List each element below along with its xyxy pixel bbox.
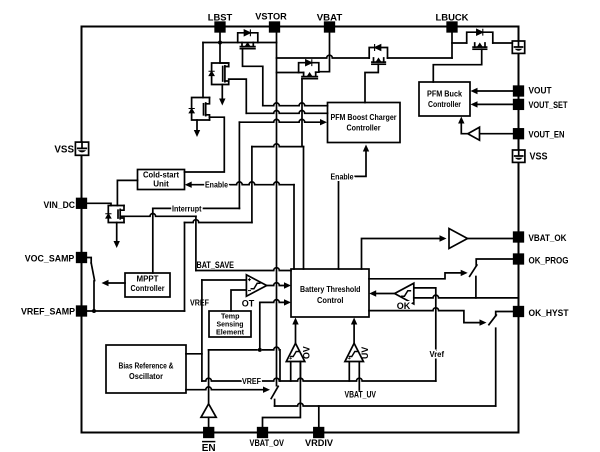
wire Q1 gate to boost controller bbox=[229, 79, 247, 113]
pin VIN_DC bbox=[77, 199, 87, 209]
transistor Q1 boost low-side FET bbox=[209, 43, 229, 85]
wire VRDIV divider line bbox=[274, 400, 276, 407]
pin VSTOR bbox=[270, 22, 280, 32]
svg-text:VRDIV: VRDIV bbox=[305, 438, 334, 449]
comparator U5 UV bbox=[345, 343, 364, 381]
wire VBAT pin drop to Q5 bbox=[319, 32, 330, 72]
pin LBUCK bbox=[447, 22, 457, 32]
node VREF_SAMP switch dot bbox=[92, 309, 96, 313]
wire VSTOR-LBUCK rail bbox=[277, 55, 453, 58]
wire boost controller input 2 bbox=[246, 111, 327, 114]
transistor Q7 input FET bbox=[106, 206, 124, 223]
transistor Q6 buck FET with body diode bbox=[467, 29, 493, 49]
svg-text:LBST: LBST bbox=[208, 13, 233, 24]
pin VSS top-right symbol bbox=[512, 41, 524, 53]
svg-text:VSS: VSS bbox=[530, 152, 548, 163]
pin EN (active low) bbox=[204, 428, 214, 438]
wire OK output arrow into battery threshold control bbox=[376, 293, 395, 295]
svg-text:OK_HYST: OK_HYST bbox=[529, 308, 569, 319]
svg-text:OK: OK bbox=[397, 301, 411, 311]
svg-text:Unit: Unit bbox=[153, 180, 169, 189]
wire OV output arrow into battery threshold control bbox=[295, 324, 297, 343]
svg-text:EN: EN bbox=[202, 443, 216, 452]
svg-text:Enable: Enable bbox=[205, 180, 228, 190]
wire VREF_SAMP line bbox=[86, 310, 184, 312]
svg-text:VOUT_SET: VOUT_SET bbox=[529, 100, 568, 111]
svg-text:Vref: Vref bbox=[430, 349, 445, 359]
svg-text:LBUCK: LBUCK bbox=[436, 13, 469, 24]
wire Q7 drain to sense line bbox=[121, 215, 124, 217]
svg-text:VBAT_OK: VBAT_OK bbox=[529, 233, 567, 244]
transistor Q2 cold-start FET bbox=[189, 98, 209, 121]
wire VBAT_OK buffer output to pin bbox=[468, 238, 514, 240]
pin OK_PROG bbox=[514, 254, 524, 264]
svg-text:VIN_DC: VIN_DC bbox=[44, 200, 76, 211]
pin VOC_SAMP bbox=[77, 253, 87, 263]
wire OK_HYST pin to switch S4 bbox=[496, 312, 514, 316]
pin VSS left symbol bbox=[75, 142, 88, 155]
wire Enable riser to boost controller bbox=[339, 150, 367, 270]
pin EN label with overline bbox=[202, 442, 216, 452]
svg-text:Cold-start: Cold-start bbox=[143, 171, 179, 180]
pin VBAT_OK bbox=[514, 232, 524, 242]
svg-text:BAT_SAVE: BAT_SAVE bbox=[197, 260, 235, 270]
pin VBAT_OV bbox=[258, 428, 268, 438]
wire VREF bus bbox=[202, 378, 436, 381]
wire LBUCK pin drop bbox=[451, 32, 453, 58]
wire VOUT_EN to buffer bbox=[480, 133, 514, 135]
svg-text:Oscillator: Oscillator bbox=[129, 372, 163, 381]
switch S1 MPPT sampling switch bbox=[91, 263, 94, 281]
wire VOC_SAMP to sampling switch bbox=[86, 258, 91, 264]
switch S4 OK_HYST switch bbox=[489, 315, 496, 325]
wire Q6 gate to buck controller bbox=[433, 49, 481, 82]
wire UV output arrow into battery threshold control bbox=[353, 324, 355, 343]
wire VBAT_OV riser bbox=[263, 362, 301, 428]
pin LBST bbox=[215, 22, 225, 32]
wire Enable to cold-start unit bbox=[192, 182, 294, 185]
pin VOUT_SET bbox=[514, 100, 524, 110]
wire Q4 gate to boost controller top bbox=[365, 64, 378, 102]
svg-text:VREF_SAMP: VREF_SAMP bbox=[21, 307, 76, 318]
wire Q7 source to VSS arrow bbox=[116, 223, 118, 242]
wire VOUT_EN buffer output into buck controller bbox=[461, 123, 468, 134]
pin VSS right symbol bbox=[513, 150, 525, 162]
wire MPPT sense drop bbox=[152, 208, 154, 273]
box PFM Buck Controller bbox=[419, 82, 470, 116]
wire BAT_SAVE to battery threshold control bbox=[196, 268, 291, 271]
switch S2 VSTOR sampling switch bbox=[271, 386, 278, 398]
wire VSTOR rail vertical bbox=[276, 32, 278, 386]
wire VIN_DC to input FET bbox=[86, 203, 111, 205]
svg-text:VOC_SAMP: VOC_SAMP bbox=[25, 254, 75, 265]
svg-text:VSS: VSS bbox=[54, 145, 74, 156]
op-amp U1 VBAT_OK buffer bbox=[449, 229, 468, 249]
svg-text:VREF: VREF bbox=[242, 376, 261, 386]
pin VOUT_EN bbox=[514, 129, 524, 139]
comparator U4 OV bbox=[286, 343, 305, 381]
wire cold-start branch vertical bbox=[202, 43, 204, 98]
svg-text:Interrupt: Interrupt bbox=[172, 203, 202, 213]
svg-text:VOUT_EN: VOUT_EN bbox=[529, 130, 565, 141]
wire VREF_SAMP riser to boost controller bbox=[251, 147, 253, 223]
wire Q1 source to VSS arrow bbox=[221, 85, 223, 100]
transistor Q4 battery FET with body diode bbox=[369, 45, 387, 65]
svg-text:PFM Boost Charger: PFM Boost Charger bbox=[331, 113, 397, 122]
wire OK_PROG pin to switch S3 bbox=[476, 259, 514, 266]
svg-text:MPPT: MPPT bbox=[137, 275, 159, 284]
svg-text:Controller: Controller bbox=[347, 124, 381, 133]
svg-text:VSTOR: VSTOR bbox=[255, 12, 287, 23]
op-amp U3 EN buffer bbox=[201, 404, 216, 418]
svg-text:UV: UV bbox=[360, 347, 370, 359]
comparator U6 OK (points left) bbox=[395, 283, 414, 304]
svg-text:OV: OV bbox=[302, 346, 312, 359]
box Battery Threshold Control bbox=[291, 269, 369, 317]
node EN net junction dot bbox=[258, 348, 262, 352]
wire EN buffer chain bbox=[209, 347, 280, 381]
wire bias reference to OT riser bbox=[186, 353, 202, 355]
wire Q2 source to VSS arrow bbox=[196, 120, 198, 131]
box Bias Reference and Oscillator bbox=[106, 345, 186, 393]
transistor Q5 VSTOR-VBAT FET with body diode bbox=[277, 60, 319, 79]
op-amp U7 VOUT_EN buffer (points left) bbox=[468, 127, 480, 140]
svg-text:VBAT: VBAT bbox=[317, 13, 343, 24]
pin OK_HYST bbox=[514, 307, 524, 317]
svg-text:Battery Threshold: Battery Threshold bbox=[300, 285, 361, 294]
svg-text:Control: Control bbox=[317, 296, 344, 305]
svg-text:OT: OT bbox=[242, 299, 255, 309]
wire S4 control from battery threshold control bbox=[369, 308, 480, 323]
wire cold-start unit to input FET gate bbox=[117, 180, 137, 205]
wire bias reference VREF control arrow bbox=[186, 387, 264, 390]
pin VOUT bbox=[514, 86, 524, 96]
comparator U2 hysteresis glyph bbox=[251, 283, 260, 289]
wire VOUT_SET arrow into buck controller bbox=[477, 103, 514, 105]
svg-text:Element: Element bbox=[216, 328, 244, 337]
wire buck rail bbox=[452, 42, 512, 44]
pin VBAT bbox=[325, 22, 335, 32]
wire OT output arrow into battery threshold control bbox=[267, 283, 285, 286]
wire OK inverting input from divider bbox=[414, 295, 519, 298]
wire EN net to battery threshold control bbox=[260, 300, 285, 350]
wire Q3 gate to boost controller bbox=[243, 49, 263, 106]
box Cold-start Unit bbox=[138, 170, 185, 190]
wire MPPT controller switch control arrow bbox=[108, 282, 125, 284]
svg-text:+: + bbox=[348, 356, 351, 362]
wire VBAT_OK buffer input bbox=[362, 239, 441, 270]
pin VRDIV bbox=[314, 428, 324, 438]
wire Q2 to cold-start unit bbox=[185, 117, 225, 172]
svg-text:+: + bbox=[289, 356, 292, 362]
wire VBAT_UV stub bbox=[358, 381, 360, 390]
svg-text:Controller: Controller bbox=[131, 284, 165, 293]
svg-text:VREF: VREF bbox=[190, 297, 209, 307]
svg-text:PFM Buck: PFM Buck bbox=[427, 90, 462, 99]
box Temp Sensing Element bbox=[209, 311, 251, 337]
wire Q5 gate down to battery threshold control bbox=[301, 79, 303, 147]
svg-text:VOUT: VOUT bbox=[529, 85, 552, 96]
svg-text:Controller: Controller bbox=[428, 100, 461, 109]
wire Interrupt line bbox=[153, 207, 240, 209]
svg-text:OK_PROG: OK_PROG bbox=[529, 255, 569, 266]
wire boost power rail LBST to VSTOR bbox=[203, 42, 277, 44]
switch S3 OK_PROG switch bbox=[470, 265, 477, 276]
wire Vref riser to OK comparator bbox=[414, 288, 436, 381]
wire S3 control from battery threshold control bbox=[369, 273, 461, 279]
pin VREF_SAMP bbox=[77, 306, 87, 316]
wire VOUT arrow into buck controller bbox=[477, 90, 514, 92]
svg-text:Enable: Enable bbox=[331, 171, 354, 181]
svg-text:VBAT_UV: VBAT_UV bbox=[345, 390, 377, 400]
box PFM Boost Charger Controller bbox=[328, 103, 401, 143]
transistor Q3 boost rectifier FET with body diode bbox=[238, 30, 258, 49]
wire input FET to BAT_SAVE corner bbox=[121, 214, 196, 217]
node LBST junction dot bbox=[218, 41, 222, 45]
IC outer border bbox=[82, 27, 519, 433]
wire interrupt riser and arrow into boost controller bbox=[239, 119, 320, 122]
svg-text:Bias Reference &: Bias Reference & bbox=[119, 362, 174, 371]
svg-text:VBAT_OV: VBAT_OV bbox=[250, 438, 285, 449]
box MPPT Controller bbox=[125, 273, 170, 297]
wire LBST pin drop bbox=[219, 32, 221, 43]
comparator U2 OT with VREF input bbox=[202, 279, 247, 281]
